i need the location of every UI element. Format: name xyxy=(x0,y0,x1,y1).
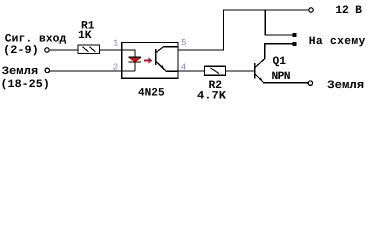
svg-text:4.7K: 4.7K xyxy=(197,91,226,103)
svg-text:Земля: Земля xyxy=(327,80,364,92)
resistor R1 xyxy=(78,45,100,54)
svg-text:(2-9): (2-9) xyxy=(3,44,39,57)
wire: R1 to optocoupler pin 1 xyxy=(100,49,123,50)
transistor: phototransistor of 4N25 xyxy=(155,47,178,72)
wire: ground terminal to optocoupler pin 2 xyxy=(50,70,135,71)
wire: 12V rail tap to upper "to circuit" terminal xyxy=(265,11,294,35)
svg-text:(18-25): (18-25) xyxy=(1,78,50,91)
transistor Q1 xyxy=(254,58,265,82)
terminal: signal input xyxy=(45,48,49,52)
wire: pin 5 up to +12V rail xyxy=(178,10,309,50)
svg-text:Сиг. вход: Сиг. вход xyxy=(5,33,67,45)
diode D1 LED of 4N25 xyxy=(129,56,142,62)
svg-text:NPN: NPN xyxy=(272,71,291,83)
terminal: ground right xyxy=(308,81,312,85)
terminal: to-circuit upper (filled square) xyxy=(293,33,297,37)
terminal: 12V xyxy=(309,8,313,12)
terminal: ground input xyxy=(45,68,49,72)
resistor R2 xyxy=(205,66,226,75)
svg-text:2: 2 xyxy=(113,62,118,72)
svg-text:12 В: 12 В xyxy=(335,5,362,17)
wire: Q1 emitter to ground terminal xyxy=(263,82,308,83)
wire: LED cathode down to pin 2 row xyxy=(134,63,135,71)
wire: pin 4 to R2 xyxy=(178,70,205,71)
svg-text:5: 5 xyxy=(181,38,186,48)
svg-text:Земля: Земля xyxy=(2,66,39,78)
svg-text:1: 1 xyxy=(113,39,118,49)
wire: input terminal to R1 xyxy=(50,49,78,50)
terminal: to-circuit lower (filled square) xyxy=(293,42,297,46)
wire: Q1 collector to lower "to circuit" terminal xyxy=(265,44,294,59)
wire: pin1 internal to LED anode xyxy=(122,50,135,57)
svg-text:Q1: Q1 xyxy=(273,56,287,68)
op-amp U1 4N25 optocoupler box xyxy=(122,43,178,79)
svg-text:На схему: На схему xyxy=(309,36,366,48)
svg-text:1K: 1K xyxy=(78,30,92,42)
wire: R2 to Q1 base xyxy=(226,70,255,71)
light arrow (LED to phototransistor) xyxy=(144,58,152,64)
svg-text:4N25: 4N25 xyxy=(138,88,165,100)
